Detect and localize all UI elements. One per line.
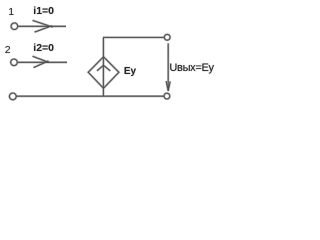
label Uvyh=Ey: [169, 63, 213, 74]
node 1 label: [8, 7, 14, 18]
line art core pass: [9, 20, 170, 99]
label i1=0: [33, 6, 54, 17]
label Ey: [124, 67, 136, 77]
label i2=0: [33, 43, 54, 54]
line art soft halo pass: [9, 20, 170, 99]
node 2 label: [5, 45, 11, 56]
